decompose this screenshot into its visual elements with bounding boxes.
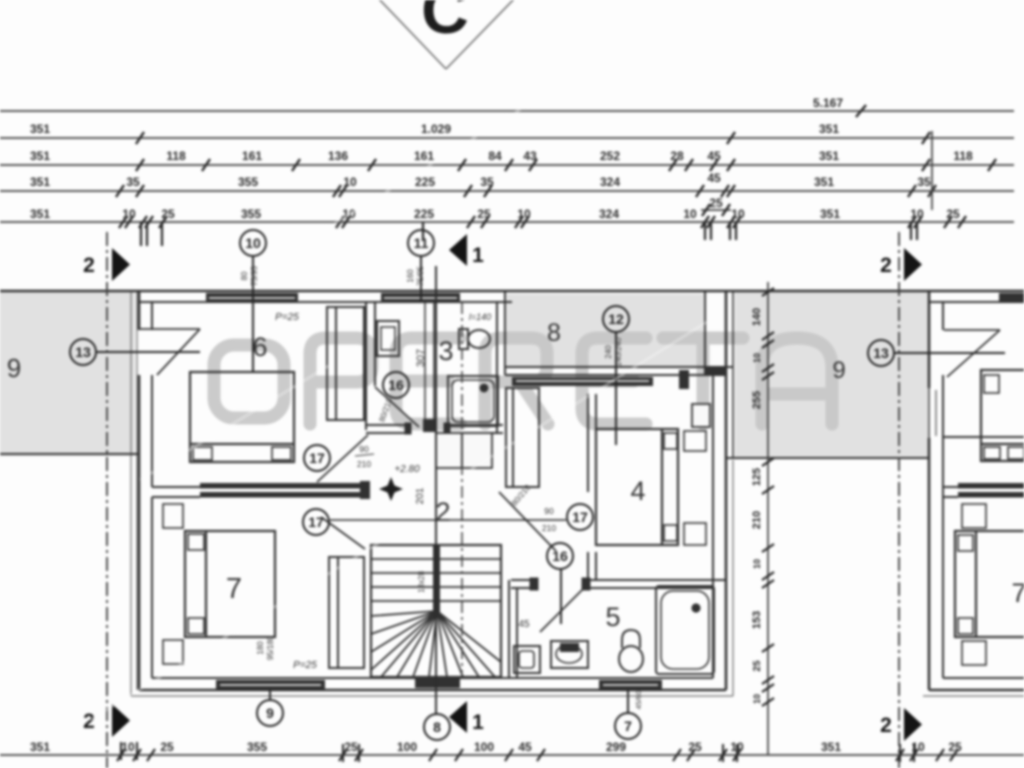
- bed room 7: [163, 504, 275, 664]
- svg-text:201: 201: [415, 487, 426, 504]
- svg-text:2: 2: [880, 254, 892, 277]
- svg-text:84: 84: [488, 149, 502, 163]
- circled 12: [603, 306, 629, 445]
- svg-text:1.029: 1.029: [421, 122, 451, 136]
- bottom dimension line: [0, 754, 1024, 756]
- bed room 4: [596, 429, 706, 545]
- svg-text:45: 45: [518, 619, 530, 630]
- svg-text:95/180: 95/180: [266, 635, 275, 660]
- svg-text:324: 324: [600, 175, 620, 189]
- watermark letter E2: [582, 338, 646, 424]
- dark band below stairs: [415, 676, 460, 688]
- svg-text:5.167: 5.167: [813, 96, 843, 110]
- svg-text:P=25: P=25: [275, 312, 299, 323]
- terrace 9 left (gray): [0, 291, 135, 456]
- svg-text:1: 1: [472, 711, 484, 734]
- left wall of unit: [139, 291, 152, 690]
- door 17c room4 swing: [499, 492, 556, 551]
- door room6 to terrace: [139, 329, 200, 375]
- vertical dim labels: [751, 308, 763, 704]
- svg-text:10: 10: [752, 694, 762, 704]
- wall hall/room4: [588, 394, 596, 580]
- svg-text:351: 351: [30, 149, 50, 163]
- svg-text:240: 240: [604, 345, 613, 359]
- svg-text:5: 5: [605, 602, 620, 632]
- svg-text:100: 100: [397, 740, 417, 754]
- svg-text:13: 13: [873, 345, 889, 361]
- svg-text:75/95: 75/95: [416, 265, 425, 286]
- circled 7 bottom: [615, 690, 641, 739]
- svg-text:140/240: 140/240: [614, 337, 623, 366]
- door 17a swing: [317, 435, 368, 482]
- dash-dot axis center: [461, 302, 463, 672]
- circled 16 bath3: [383, 372, 409, 398]
- terrace 9 right bottom border: [726, 457, 929, 459]
- north star symbol: [379, 477, 403, 501]
- svg-text:6: 6: [252, 332, 267, 362]
- svg-text:45: 45: [518, 740, 532, 754]
- dimension texts row4: [30, 171, 931, 189]
- svg-text:80: 80: [240, 271, 249, 280]
- svg-text:35: 35: [126, 175, 140, 189]
- svg-text:210: 210: [357, 459, 371, 469]
- svg-text:9: 9: [266, 705, 274, 721]
- svg-text:7: 7: [624, 718, 632, 734]
- toilet bath5: [619, 630, 643, 672]
- svg-text:10: 10: [752, 353, 762, 363]
- svg-text:161: 161: [242, 149, 262, 163]
- dimension tick marks top block: [116, 105, 996, 228]
- dash-dot axis left: [106, 232, 108, 768]
- svg-text:90: 90: [544, 506, 554, 516]
- svg-text:45/60: 45/60: [634, 691, 643, 710]
- right unit left wall: [929, 291, 943, 690]
- terrace 8 bottom wall: [505, 367, 733, 375]
- right unit wall 6/7 with pocket doors: [943, 487, 958, 497]
- svg-text:11: 11: [414, 235, 429, 251]
- terrace 9 left border: [0, 453, 139, 455]
- dimension texts row5: [30, 207, 960, 221]
- door bath3 swing: [375, 387, 419, 427]
- window right unit top: [999, 293, 1024, 303]
- svg-text:355: 355: [247, 740, 267, 754]
- svg-text:351: 351: [814, 175, 834, 189]
- svg-text:1: 1: [472, 244, 484, 267]
- svg-text:225: 225: [414, 207, 434, 221]
- svg-text:17: 17: [572, 509, 588, 525]
- door right unit to terrace: [944, 330, 1000, 377]
- terrace 8 (gray): [507, 294, 703, 368]
- svg-text:136: 136: [328, 149, 348, 163]
- svg-text:2: 2: [83, 710, 95, 733]
- svg-text:210: 210: [542, 523, 556, 533]
- svg-text:35: 35: [917, 175, 931, 189]
- vertical dim ticks: [762, 288, 774, 706]
- washbasin bath5: [551, 641, 588, 668]
- svg-text:255: 255: [751, 391, 763, 409]
- svg-text:9: 9: [7, 353, 21, 383]
- svg-text:351: 351: [820, 207, 840, 221]
- svg-text:16: 16: [388, 377, 404, 393]
- watermark OPERETA: [214, 338, 832, 424]
- svg-text:l=140: l=140: [469, 312, 491, 322]
- circled 11: [408, 230, 434, 302]
- stairs center wall: [433, 545, 440, 613]
- svg-text:45: 45: [707, 149, 721, 163]
- svg-text:10: 10: [517, 207, 531, 221]
- svg-text:307: 307: [415, 349, 427, 367]
- plumbing wall inside bath3: [425, 302, 434, 425]
- svg-text:118: 118: [166, 149, 186, 163]
- watermark white streaks: [90, 85, 710, 720]
- shelf line right unit: [943, 436, 1024, 438]
- svg-text:161: 161: [414, 149, 434, 163]
- window bottom bath5: [599, 680, 662, 690]
- svg-text:25: 25: [752, 660, 763, 672]
- circled 16 bath5: [547, 543, 573, 624]
- svg-text:7: 7: [1011, 578, 1024, 608]
- svg-text:8: 8: [433, 719, 441, 735]
- circled 10: [240, 230, 266, 372]
- dimension texts row2: [30, 122, 839, 136]
- section marker 1 bottom: [449, 701, 467, 733]
- svg-text:25: 25: [160, 740, 174, 754]
- shower bath3: [448, 376, 498, 426]
- sliding balcony door terrace 8: [512, 377, 653, 386]
- svg-text:100: 100: [474, 740, 494, 754]
- circled 13 right: [868, 340, 1005, 366]
- svg-text:10: 10: [245, 235, 261, 251]
- window bottom room7: [216, 680, 325, 690]
- svg-text:8: 8: [547, 319, 561, 347]
- bottom dim ticks: [117, 749, 958, 761]
- shower/bidet square bath5: [514, 646, 540, 673]
- tick tails below row5: [141, 222, 917, 246]
- svg-text:16: 16: [552, 548, 568, 564]
- svg-text:252: 252: [600, 149, 620, 163]
- svg-text:75/95: 75/95: [250, 265, 259, 286]
- svg-text:351: 351: [821, 740, 841, 754]
- svg-text:10: 10: [910, 207, 924, 221]
- svg-text:17: 17: [308, 514, 324, 530]
- svg-text:P=25: P=25: [293, 660, 317, 671]
- bed right unit bottom: [955, 504, 1024, 665]
- svg-text:351: 351: [30, 122, 50, 136]
- wall room4+hall / bath5: [511, 578, 726, 590]
- svg-text:+2.80: +2.80: [394, 464, 420, 475]
- svg-text:351: 351: [30, 740, 50, 754]
- entry door jamb top-right hall: [679, 370, 689, 389]
- svg-text:2: 2: [880, 714, 892, 737]
- svg-text:118: 118: [953, 149, 973, 163]
- right wall of unit / terrace wall: [705, 291, 733, 690]
- internal wall: bath3 right / terrace8 left: [497, 291, 505, 433]
- section marker diamond C (top, clipped): [377, 0, 516, 69]
- svg-text:7: 7: [226, 573, 242, 605]
- svg-text:125: 125: [751, 468, 763, 486]
- circled 9 bottom: [257, 690, 283, 726]
- top wall main (spans full plan): [0, 291, 1024, 302]
- svg-text:9: 9: [832, 357, 845, 384]
- svg-text:25: 25: [477, 207, 491, 221]
- bathtub bath5: [656, 586, 714, 674]
- svg-text:2: 2: [83, 254, 95, 277]
- washing machine bath3: [377, 321, 399, 356]
- svg-text:160: 160: [406, 269, 415, 283]
- watermark letter A: [762, 338, 832, 424]
- svg-text:25: 25: [709, 196, 723, 210]
- vertical dimension line right of unit: [767, 282, 769, 755]
- door bath5 swing: [540, 586, 586, 632]
- svg-text:45: 45: [707, 171, 721, 185]
- watermark letter P: [310, 338, 372, 424]
- svg-text:140: 140: [751, 308, 763, 326]
- dimension texts row3: [30, 149, 973, 163]
- circled 8 bottom: [424, 714, 450, 740]
- section line 1-1: [435, 266, 437, 714]
- circled 17 room7 lower: [303, 509, 329, 535]
- svg-text:10: 10: [683, 207, 697, 221]
- svg-text:180: 180: [256, 641, 265, 655]
- section marker 1 top: [449, 234, 467, 266]
- svg-text:153: 153: [751, 611, 763, 629]
- svg-text:C: C: [421, 0, 469, 47]
- svg-text:3: 3: [438, 336, 453, 366]
- svg-text:355: 355: [241, 207, 261, 221]
- watermark letter R: [485, 338, 548, 424]
- svg-text:25: 25: [161, 207, 175, 221]
- toilet bath3: [459, 329, 490, 349]
- svg-text:351: 351: [30, 175, 50, 189]
- bottom wall left unit: [139, 678, 726, 690]
- svg-text:351: 351: [819, 149, 839, 163]
- svg-text:25: 25: [688, 740, 702, 754]
- wall room6/room7 with pocket doors: [152, 487, 200, 497]
- window W1 room6 top: [206, 293, 298, 303]
- svg-text:299: 299: [606, 740, 626, 754]
- circled 17 room7 upper: [304, 445, 330, 471]
- window W2 bath3 top: [381, 293, 460, 303]
- circled 17 room4: [567, 504, 593, 530]
- leader line doors 17: [330, 519, 566, 521]
- svg-text:90: 90: [359, 444, 369, 454]
- dash-dot axis right: [898, 232, 900, 768]
- watermark letter O: [214, 345, 284, 418]
- svg-text:4: 4: [630, 476, 645, 506]
- wall bath5 left: [509, 580, 517, 678]
- terrace 9 right (gray): [735, 292, 929, 458]
- bottom tick tails: [121, 742, 914, 762]
- shaft on right wall: [692, 404, 710, 427]
- wall cap terrace8/9: [706, 366, 726, 376]
- svg-text:12: 12: [608, 311, 624, 327]
- svg-text:2: 2: [435, 497, 450, 527]
- bed room 6: [190, 372, 294, 462]
- svg-text:17: 17: [309, 450, 325, 466]
- svg-text:13: 13: [75, 344, 91, 360]
- niche boxes below bath3: [436, 433, 462, 468]
- right unit bottom wall: [929, 678, 1024, 690]
- svg-text:324: 324: [599, 207, 619, 221]
- svg-text:351: 351: [30, 207, 50, 221]
- svg-text:25: 25: [946, 207, 960, 221]
- svg-text:355: 355: [238, 175, 258, 189]
- watermark letter T: [663, 338, 743, 424]
- svg-text:18x28: 18x28: [417, 571, 426, 593]
- svg-text:10: 10: [752, 559, 762, 569]
- watermark letter E: [396, 338, 460, 424]
- stairs: [371, 545, 501, 677]
- bed right unit top: [981, 370, 1024, 461]
- internal wall: bath3 left: [366, 302, 375, 430]
- svg-text:225: 225: [415, 175, 435, 189]
- internal wall: bath3 bottom: [366, 423, 503, 434]
- closet room6: [327, 307, 436, 431]
- door 17b swing: [321, 517, 365, 549]
- closet hallway: [506, 388, 539, 487]
- top dimension line 1 (5.167): [0, 111, 1014, 222]
- bottom dim texts: [30, 740, 962, 754]
- circled 13 left: [70, 339, 200, 365]
- svg-text:210: 210: [751, 511, 763, 529]
- closet by stairs: [329, 557, 364, 668]
- outer thin facade lines: [131, 291, 1024, 696]
- svg-text:351: 351: [819, 122, 839, 136]
